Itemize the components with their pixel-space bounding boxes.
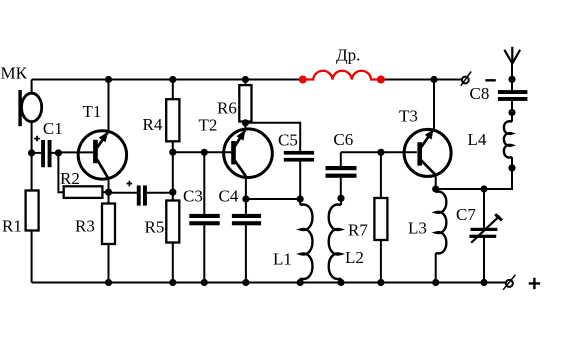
wire R1 bottom to rail: [31, 231, 33, 283]
wire C1 left lead: [32, 152, 41, 154]
transistor T2: [224, 129, 273, 178]
node mic C1 R1: [28, 149, 35, 156]
capacitor C2 electrolytic: [137, 185, 147, 205]
microphone MK: [18, 90, 41, 126]
wire R2 right lead: [102, 191, 108, 193]
node C5 L1: [297, 195, 304, 202]
wire base node down to R2: [58, 153, 63, 192]
minus sign: [485, 79, 495, 81]
node C1 T1 base R2: [55, 149, 62, 156]
wire T3 emitter node to C7 and L4: [436, 168, 512, 189]
resistor R3: [102, 204, 115, 245]
wire C4 drop: [245, 199, 247, 214]
wire R7 top lead: [380, 152, 382, 198]
svg-text:R6: R6: [217, 99, 237, 118]
svg-text:R3: R3: [75, 217, 95, 236]
choke Dr. red coil: [303, 71, 381, 80]
capacitor C7 variable: [469, 228, 497, 238]
node rail L2: [337, 279, 344, 286]
svg-text:C3: C3: [183, 187, 203, 206]
node T2 base C3: [201, 149, 208, 156]
wire R6 bottom to T2 collector: [244, 122, 246, 130]
inductor L2: [329, 205, 341, 279]
capacitor C6: [326, 166, 357, 178]
svg-text:L3: L3: [408, 219, 427, 238]
svg-text:L4: L4: [468, 130, 487, 149]
inductor L3: [436, 192, 447, 254]
wire C8 bottom to L4 top: [511, 101, 513, 122]
svg-text:R7: R7: [348, 221, 368, 240]
node top rail T1 collector: [105, 76, 112, 83]
wire L2 top stub: [340, 198, 342, 205]
wire top rail right segment: [383, 79, 462, 81]
node C7 top: [480, 185, 487, 192]
node R4 T2 base: [169, 149, 176, 156]
wire L1 bottom stub: [299, 279, 301, 283]
node T2 emitter C4 L1: [242, 195, 249, 202]
resistor R7: [374, 198, 387, 240]
wire T2 collector node to C5: [245, 123, 300, 151]
inductor L4: [504, 121, 512, 157]
wire bottom rail: [32, 282, 506, 284]
wire T2 base line: [173, 151, 232, 153]
wire R7 bottom to rail: [380, 240, 382, 283]
resistor R1: [26, 191, 39, 231]
svg-text:C4: C4: [219, 187, 239, 206]
wire L2 bottom stub: [340, 279, 342, 283]
resistor R5: [166, 201, 179, 243]
svg-text:МК: МК: [1, 64, 28, 83]
svg-text:C6: C6: [333, 130, 353, 149]
wire L3 top stub: [435, 189, 437, 192]
node R6 T2 collector C5: [242, 119, 249, 126]
wire R6 top lead: [244, 80, 246, 86]
terminal top right minus: [461, 72, 471, 86]
wire T1 emitter lead: [108, 179, 110, 204]
choke left red dot: [299, 76, 307, 84]
svg-text:T1: T1: [83, 102, 102, 121]
wire top rail left segment: [32, 79, 301, 81]
wire T3 emitter lead: [435, 175, 437, 189]
wire C5 bottom lead: [299, 162, 301, 200]
plus sign: [529, 278, 540, 289]
wire L3 bottom to rail: [435, 253, 437, 283]
node rail C4: [242, 279, 249, 286]
svg-text:C1: C1: [43, 119, 63, 138]
C2 plus sign: [127, 181, 133, 187]
node rail R5: [169, 279, 176, 286]
wire T3 base line: [341, 151, 417, 153]
wire left column mic to rail: [31, 80, 33, 94]
node L4 bottom: [508, 164, 515, 171]
svg-text:T2: T2: [199, 116, 218, 135]
wire C3 drop: [203, 152, 205, 214]
node rail R7: [377, 279, 384, 286]
transistor T1: [78, 131, 126, 179]
resistor R6: [239, 85, 251, 121]
wire C6 bottom lead: [340, 178, 342, 199]
resistor R4: [166, 99, 179, 141]
wire R4 bottom to R5 top: [172, 141, 174, 200]
wire L1 top stub: [299, 199, 301, 205]
wire R5 bottom to rail: [172, 243, 174, 283]
svg-text:C8: C8: [470, 84, 490, 103]
svg-text:R2: R2: [60, 169, 80, 188]
capacitor C3: [189, 214, 219, 225]
transistor T3: [404, 129, 451, 177]
resistor R2: [64, 186, 103, 198]
wire T1 base line: [58, 151, 94, 153]
node rail L1: [297, 279, 304, 286]
svg-text:Др.: Др.: [336, 46, 360, 65]
svg-text:C5: C5: [278, 131, 298, 150]
node rail C3: [201, 279, 208, 286]
wire C2 right plate to divider node: [147, 192, 173, 194]
node T1 emitter R2 R3 C2: [105, 189, 112, 196]
node C2 R4 R5: [169, 189, 176, 196]
wire L4 bottom stub: [511, 157, 513, 168]
node C6 L2: [337, 195, 344, 202]
node rail R1... bottom rail dots: [105, 279, 112, 286]
choke right red dot: [377, 76, 385, 84]
node top rail T3 collector: [430, 76, 437, 83]
wire C3 bottom to rail: [203, 225, 205, 282]
svg-text:C7: C7: [456, 205, 476, 224]
svg-text:T3: T3: [399, 107, 418, 126]
svg-text:L1: L1: [273, 250, 292, 269]
wire node to C2 left plate: [109, 192, 137, 194]
wire T2 emitter lead: [245, 176, 247, 199]
node T3 base R7: [377, 149, 384, 156]
terminal bottom right plus: [503, 275, 515, 290]
wire C7 bottom to rail: [483, 238, 485, 283]
svg-text:L2: L2: [345, 248, 364, 267]
capacitor C1: [41, 140, 51, 167]
node rail L3: [432, 279, 439, 286]
svg-text:R1: R1: [2, 217, 22, 236]
inductor L1: [300, 205, 312, 279]
wire T2 emitter to L1 top: [246, 198, 300, 200]
node C8 L4: [508, 109, 515, 116]
node rail C7: [480, 279, 487, 286]
capacitor C4: [232, 214, 261, 225]
wire C1 right lead to T1 base: [52, 152, 59, 154]
wire R4 top lead: [172, 80, 174, 100]
wire antenna lead to C8: [511, 64, 513, 91]
capacitor C5: [284, 151, 314, 162]
node antenna C8: [508, 76, 515, 83]
antenna: [504, 47, 520, 64]
svg-text:R5: R5: [145, 218, 165, 237]
node top rail R4: [169, 76, 176, 83]
C7 arrow: [471, 214, 502, 243]
wire C4 bottom to rail: [245, 225, 247, 282]
node top rail R6: [242, 76, 249, 83]
wire C7 top lead: [483, 189, 485, 228]
wire T3 collector lead: [433, 80, 435, 129]
wire T1 collector lead: [108, 80, 110, 132]
node T3 emitter L3: [432, 185, 439, 192]
svg-text:R4: R4: [143, 115, 163, 134]
wire C6 top lead to T3 base line: [340, 152, 342, 166]
C1 plus sign: [34, 136, 40, 142]
capacitor C8: [498, 90, 528, 101]
wire R3 bottom to rail: [108, 244, 110, 283]
wire mic bottom to C1 node: [31, 122, 33, 191]
